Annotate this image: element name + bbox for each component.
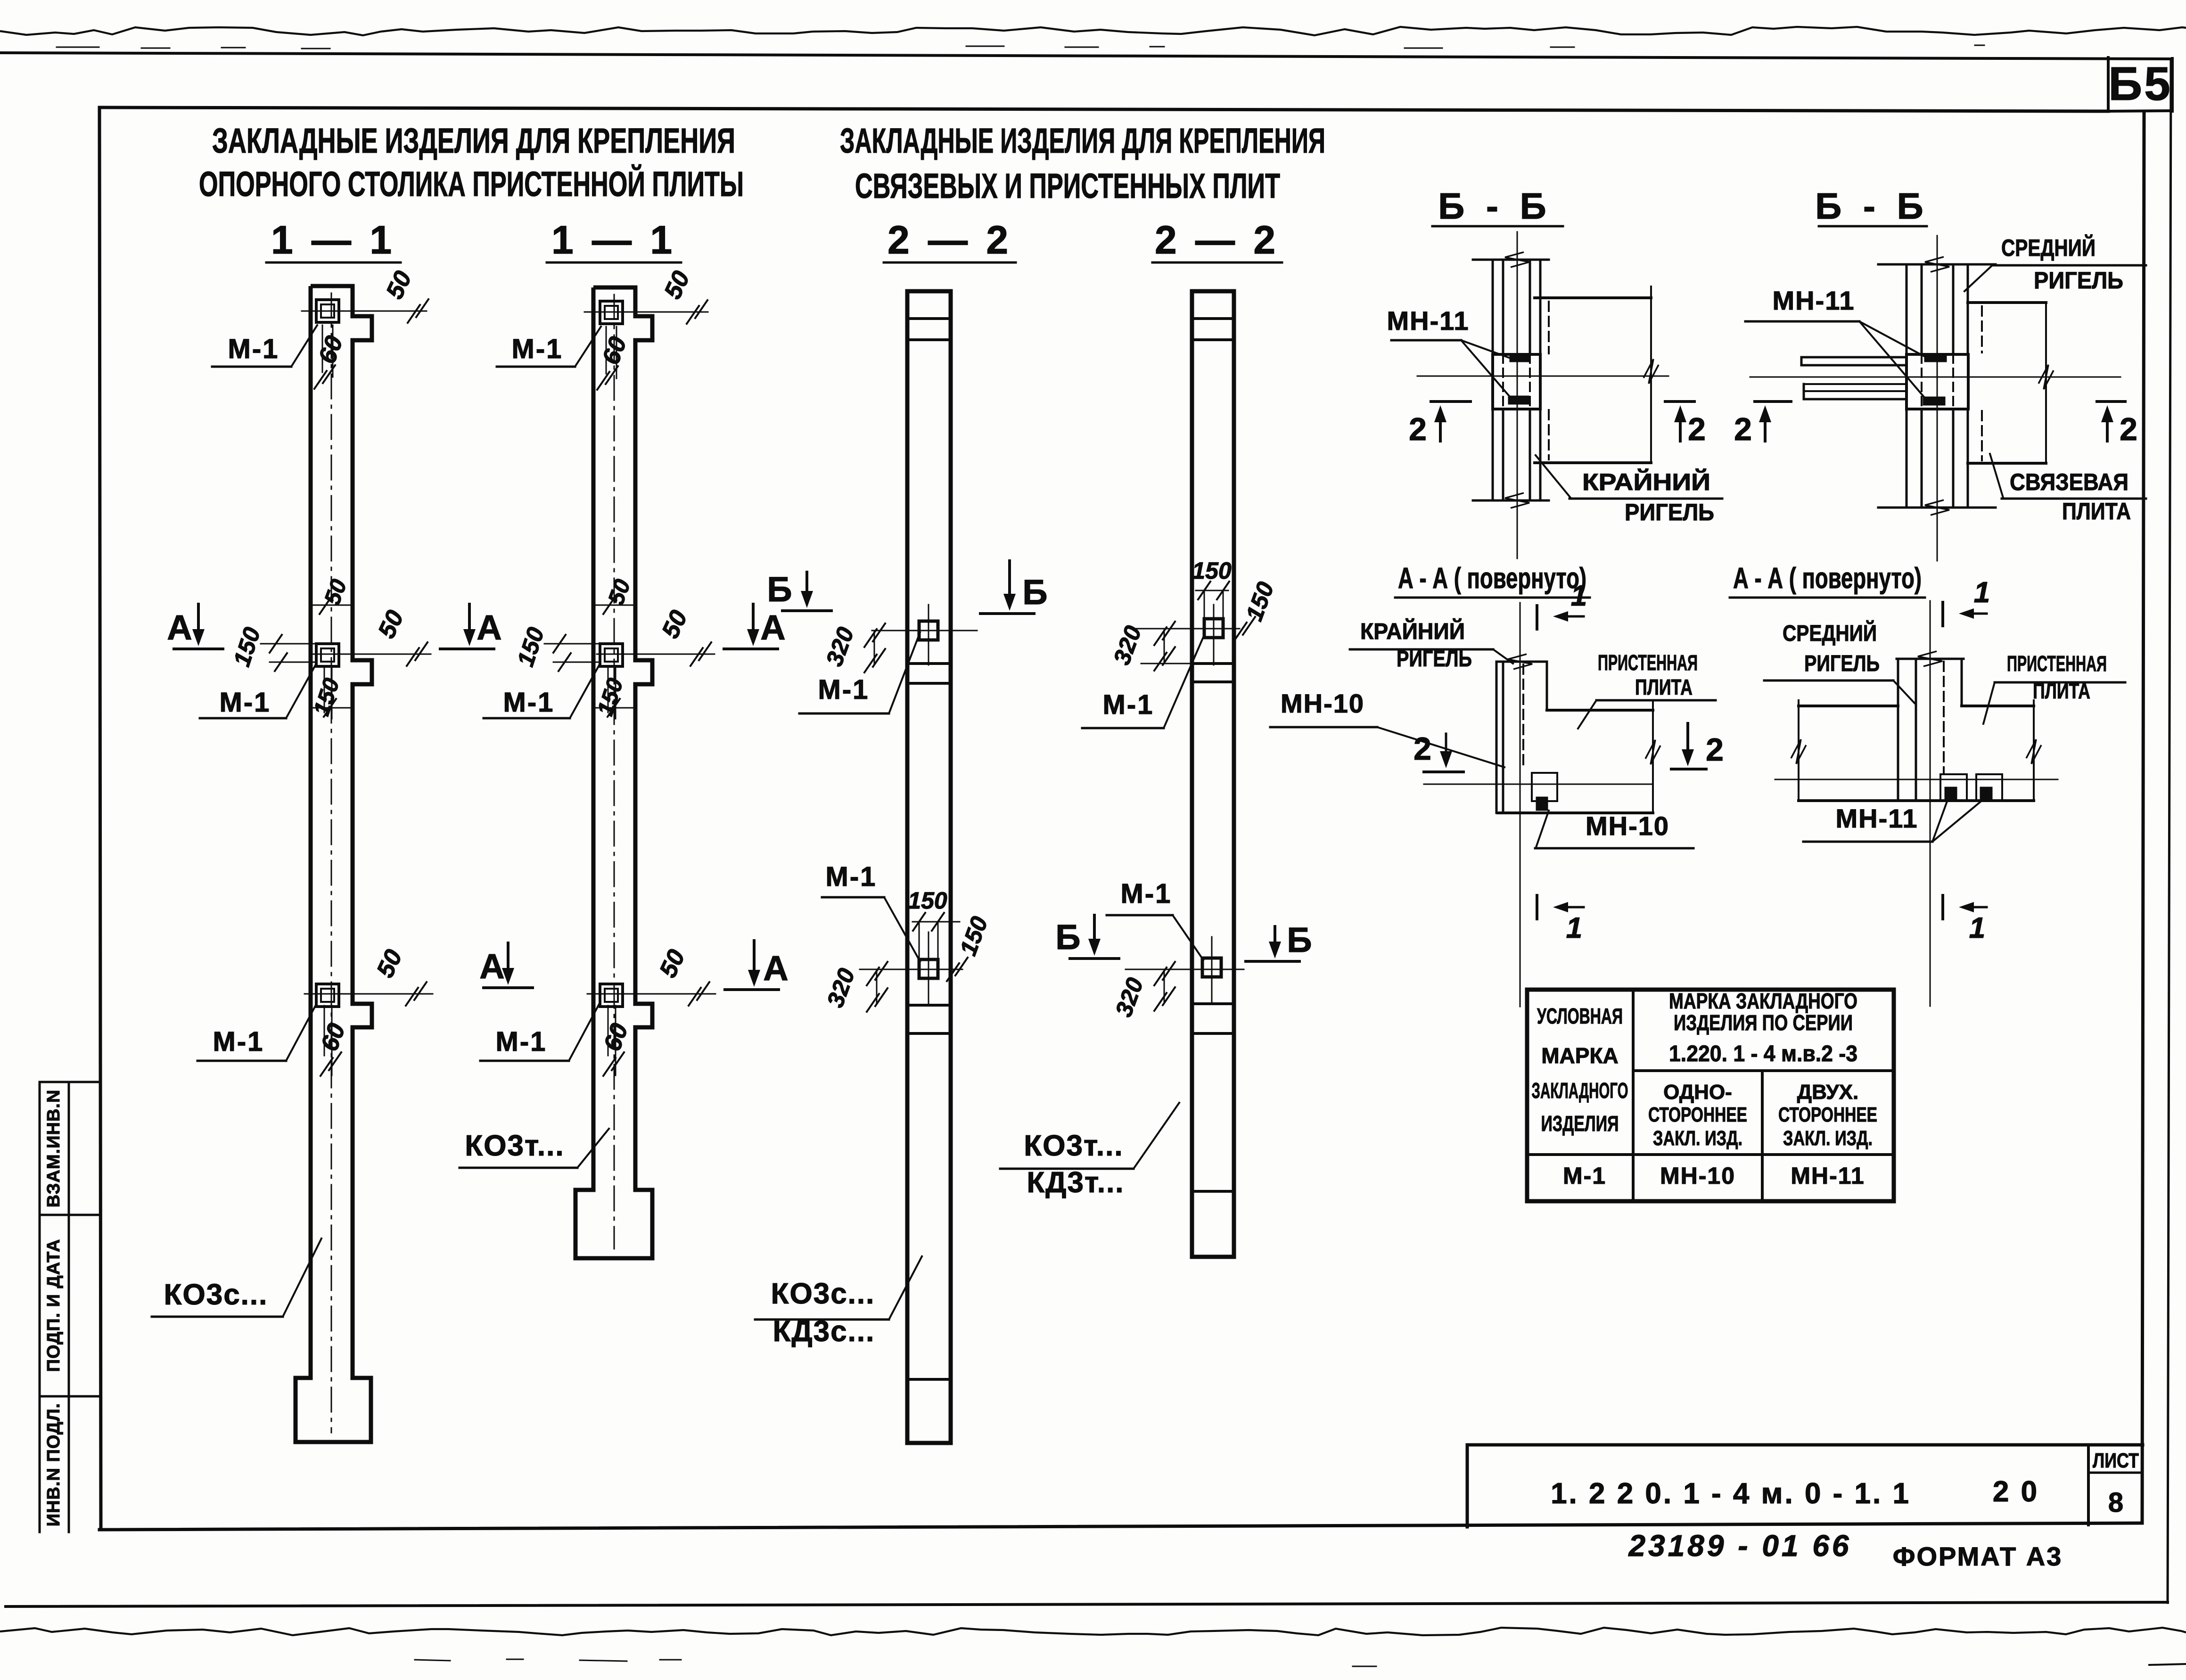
column 2 centerline (614, 295, 615, 1249)
title block list cell (2087, 1445, 2090, 1525)
svg-text:ИНВ.N ПОДЛ.: ИНВ.N ПОДЛ. (44, 1403, 64, 1526)
section mark A right of column 2 bottom (725, 988, 779, 991)
svg-text:2: 2 (1414, 731, 1431, 767)
svg-text:1: 1 (1571, 580, 1587, 612)
detail B-B left : MN-11 plate upper (1511, 354, 1529, 361)
column 4 lower dim 320 (1164, 969, 1165, 1003)
section mark B left of column 3 (782, 609, 831, 612)
svg-text:ОДНО-: ОДНО- (1663, 1081, 1732, 1104)
section mark B right of column 3 (980, 612, 1034, 615)
column 1 plate M-1 top (316, 300, 339, 322)
detail A-A right : section mark 1 bottom (1941, 895, 1944, 919)
svg-text:МАРКА ЗАКЛАДНОГО: МАРКА ЗАКЛАДНОГО (1669, 989, 1857, 1013)
svg-text:КО3с...: КО3с... (771, 1278, 875, 1310)
column 1 mid plate M-1 (316, 644, 339, 666)
detail B-B right : middle beam outline (1968, 301, 2046, 304)
svg-text:ЗАКЛАДНЫЕ ИЗДЕЛИЯ ДЛЯ КРЕПЛ: ЗАКЛАДНЫЕ ИЗДЕЛИЯ ДЛЯ КРЕПЛЕНИЯ (840, 121, 1325, 160)
detail B-B right : stiffness diaphragm (1801, 356, 1907, 359)
svg-text:РИГЕЛЬ: РИГЕЛЬ (1804, 651, 1880, 676)
column 2 mid dims 150 left (544, 643, 600, 645)
column 1 bottom dim 50 right (304, 993, 433, 995)
column 1 elevation outline (section 1-1) (296, 286, 372, 1442)
svg-text:СВЯЗЕВЫХ И ПРИСТЕННЫХ ПЛИТ: СВЯЗЕВЫХ И ПРИСТЕННЫХ ПЛИТ (855, 166, 1280, 205)
detail B-B right : MN-11 plate lower (1924, 398, 1944, 404)
svg-text:А: А (479, 947, 504, 986)
svg-text:2 — 2: 2 — 2 (1155, 218, 1279, 262)
column 1 mid dims 150 left (261, 643, 316, 645)
svg-text:МН-10: МН-10 (1281, 688, 1364, 718)
svg-text:1: 1 (1974, 576, 1990, 609)
svg-text:МН-11: МН-11 (1387, 306, 1470, 336)
table of embedded item marks : outer box (1527, 990, 1894, 1201)
table horizontal dividers (1633, 1069, 1894, 1072)
section mark A right of column 2 (724, 647, 778, 650)
detail A-A right : section mark 1 top (1941, 602, 1944, 626)
svg-text:МН-11: МН-11 (1791, 1163, 1865, 1189)
svg-text:МН-10: МН-10 (1586, 811, 1669, 841)
detail B-B right : column centerline (1937, 236, 1938, 561)
svg-text:СВЯЗЕВАЯ: СВЯЗЕВАЯ (2010, 469, 2128, 495)
svg-text:РИГЕЛЬ: РИГЕЛЬ (1397, 647, 1472, 672)
detail B-B left : joint block (1493, 354, 1540, 409)
column 3 upper plate M-1 (919, 621, 938, 640)
detail B-B right : MN-11 plate upper (1925, 354, 1946, 361)
column 2 bottom plate M-1 (600, 984, 623, 1007)
svg-text:КД3т...: КД3т... (1027, 1166, 1124, 1199)
detail B-B left : section mark 2 right (1665, 400, 1694, 403)
svg-text:М-1: М-1 (503, 687, 555, 718)
column 1 mid dim 150 below (312, 707, 351, 709)
svg-text:2 0: 2 0 (1993, 1475, 2039, 1508)
column 3 lower plate M-1 (919, 959, 938, 978)
detail B-B left : section mark 2 left (1431, 400, 1471, 403)
svg-text:ОПОРНОГО СТОЛИКА ПРИСТЕННОЙ: ОПОРНОГО СТОЛИКА ПРИСТЕННОЙ ПЛИТЫ (199, 164, 744, 204)
left margin stamp boxes (39, 1082, 41, 1532)
detail A-A right : wall plate right part (1962, 705, 2034, 707)
column 2 bottom dim 50 right (587, 993, 715, 995)
svg-text:Б: Б (1022, 573, 1047, 612)
svg-text:КРАЙНИЙ: КРАЙНИЙ (1360, 618, 1465, 644)
detail B-B left : lower column (1492, 409, 1494, 500)
svg-text:КО3т...: КО3т... (465, 1130, 564, 1162)
column 3 joint band lines (907, 317, 951, 320)
detail B-B left : column centerline (1517, 232, 1518, 558)
detail B-B left : edge beam outline (1535, 296, 1651, 299)
column 2 top dim 50 (584, 311, 708, 313)
svg-text:1: 1 (1566, 912, 1582, 944)
svg-text:М-1: М-1 (228, 334, 279, 364)
column 4 upper dim 320 (1164, 629, 1165, 663)
column 2 mid dim 50 right (597, 654, 715, 655)
column 4 elevation outline (section 2-2) (1192, 291, 1234, 1257)
column 1 mid dim 50 right (313, 654, 431, 655)
column 2 elevation outline (section 1-1) (575, 287, 652, 1258)
svg-text:2: 2 (1706, 732, 1724, 768)
svg-text:РИГЕЛЬ: РИГЕЛЬ (2034, 267, 2123, 294)
torn paper top edge (0, 27, 2186, 35)
column 3 elevation outline (section 2-2) (907, 291, 951, 1443)
detail A-A left : column strip (1496, 662, 1498, 813)
column 3 lower dim 320 (876, 969, 878, 1004)
column 1 mid dim 50 above (311, 605, 351, 606)
svg-text:Б - Б: Б - Б (1438, 185, 1552, 227)
svg-text:М-1: М-1 (826, 861, 877, 892)
svg-text:РИГЕЛЬ: РИГЕЛЬ (1625, 499, 1714, 525)
section mark A right of column 1 (440, 647, 494, 650)
svg-text:1: 1 (1969, 912, 1985, 944)
title block box (1466, 1445, 1469, 1527)
svg-text:2: 2 (1734, 411, 1752, 447)
svg-text:М-1: М-1 (512, 334, 563, 364)
svg-text:2: 2 (1688, 411, 1706, 447)
section mark A left of column 2 bottom (484, 986, 533, 989)
svg-text:А - А ( повернуто): А - А ( повернуто) (1398, 562, 1586, 595)
svg-text:150: 150 (908, 887, 947, 914)
svg-text:КРАЙНИЙ: КРАЙНИЙ (1582, 468, 1710, 495)
section mark B left of column 4 bottom (1070, 957, 1119, 960)
column 2 mid dim 150 below (596, 707, 635, 709)
svg-text:ЗАКЛАДНЫЕ ИЗДЕЛИЯ ДЛЯ КРЕПЛ: ЗАКЛАДНЫЕ ИЗДЕЛИЯ ДЛЯ КРЕПЛЕНИЯ (212, 121, 735, 160)
detail B-B left : MN-11 plate lower (1509, 397, 1528, 403)
detail B-B right : joint block (1907, 354, 1968, 409)
svg-text:ВЗАМ.ИНВ.N: ВЗАМ.ИНВ.N (44, 1090, 64, 1208)
torn paper bottom edge (0, 1628, 2186, 1635)
svg-text:ЗАКЛ. ИЗД.: ЗАКЛ. ИЗД. (1653, 1127, 1742, 1150)
svg-text:ПРИСТЕННАЯ: ПРИСТЕННАЯ (2007, 651, 2107, 676)
svg-text:ЗАКЛАДНОГО: ЗАКЛАДНОГО (1532, 1078, 1628, 1103)
detail B-B right : floor level line (1750, 377, 2120, 378)
sheet right edge line (2168, 59, 2171, 1603)
svg-text:ЗАКЛ. ИЗД.: ЗАКЛ. ИЗД. (1783, 1127, 1873, 1150)
column 2 plate M-1 top (600, 301, 623, 324)
svg-text:КД3с...: КД3с... (773, 1315, 875, 1348)
column 4 upper plate M-1 (1204, 619, 1223, 638)
column 1 top dim 50 (302, 311, 427, 312)
svg-text:М-1: М-1 (818, 674, 870, 705)
detail A-A right : column strip (1897, 659, 1899, 801)
svg-text:МН-10: МН-10 (1660, 1163, 1735, 1189)
column 2 mid plate M-1 (600, 644, 623, 666)
svg-text:СТОРОННЕЕ: СТОРОННЕЕ (1778, 1103, 1877, 1126)
svg-text:Б: Б (767, 570, 792, 609)
detail B-B right : section mark 2 left (1755, 400, 1791, 403)
table vertical dividers (1632, 990, 1635, 1201)
section mark B right of column 4 bottom (1246, 960, 1299, 963)
svg-text:М-1: М-1 (1121, 878, 1172, 909)
svg-text:ДВУХ.: ДВУХ. (1797, 1081, 1858, 1104)
svg-text:1. 2 2 0. 1 - 4 м. 0 - 1. 1: 1. 2 2 0. 1 - 4 м. 0 - 1. 1 (1551, 1477, 1911, 1510)
detail B-B left : upper column (1492, 260, 1494, 354)
detail A-A left : hidden plate box (1532, 773, 1557, 801)
svg-text:1 — 1: 1 — 1 (551, 218, 676, 262)
detail B-B right : section mark 2 right (2097, 400, 2125, 403)
svg-text:Б: Б (1287, 920, 1312, 959)
drawing frame border (99, 107, 2108, 111)
svg-text:СРЕДНИЙ: СРЕДНИЙ (1783, 620, 1877, 646)
svg-text:М-1: М-1 (1563, 1163, 1606, 1189)
detail A-A left : wall plate (1547, 709, 1653, 712)
svg-text:А: А (763, 949, 788, 988)
svg-text:М-1: М-1 (220, 687, 271, 718)
detail A-A left : section mark 1 bottom (1536, 895, 1538, 919)
sheet top edge line (0, 53, 2172, 59)
svg-text:МАРКА: МАРКА (1541, 1043, 1619, 1068)
corner label box B5 (2107, 57, 2110, 111)
column 2 mid dim 50 above (595, 605, 635, 606)
svg-text:А: А (477, 608, 501, 647)
svg-text:М-1: М-1 (496, 1026, 547, 1057)
svg-text:СТОРОННЕЕ: СТОРОННЕЕ (1648, 1103, 1747, 1126)
svg-text:1 — 1: 1 — 1 (271, 218, 395, 262)
detail A-A right : hidden plate boxes (1940, 774, 1967, 801)
svg-text:2 — 2: 2 — 2 (888, 218, 1012, 262)
svg-text:М-1: М-1 (1103, 689, 1154, 720)
svg-text:ПРИСТЕННАЯ: ПРИСТЕННАЯ (1598, 650, 1698, 675)
column 1 bottom plate M-1 (316, 984, 339, 1007)
svg-text:А: А (167, 608, 192, 647)
detail B-B right : lower column (1906, 409, 1908, 508)
svg-text:150: 150 (1192, 557, 1232, 584)
svg-text:ПЛИТА: ПЛИТА (2033, 679, 2090, 703)
svg-text:КО3т...: КО3т... (1024, 1130, 1123, 1162)
svg-text:Б5: Б5 (2108, 57, 2172, 110)
svg-text:8: 8 (2108, 1487, 2123, 1518)
column 3 upper dim 320 (874, 631, 875, 664)
sheet bottom edge line (6, 1602, 2168, 1606)
svg-text:А - А ( повернуто): А - А ( повернуто) (1733, 562, 1922, 595)
column 4 joint band lines (1192, 317, 1234, 320)
svg-text:ИЗДЕЛИЯ: ИЗДЕЛИЯ (1541, 1111, 1619, 1136)
svg-text:ПОДП. И ДАТА: ПОДП. И ДАТА (44, 1239, 64, 1372)
column 1 centerline (331, 293, 332, 1433)
svg-text:23189 - 01 66: 23189 - 01 66 (1628, 1529, 1852, 1563)
svg-text:ЛИСТ: ЛИСТ (2093, 1449, 2139, 1472)
detail B-B right : upper column (1906, 264, 1908, 354)
detail A-A left : column centerline (1520, 603, 1521, 1007)
column 4 lower plate M-1 (1202, 958, 1221, 977)
section mark A left of column 1 (174, 647, 223, 650)
svg-text:Б - Б: Б - Б (1815, 185, 1929, 227)
svg-text:А: А (760, 608, 785, 647)
svg-text:2: 2 (2120, 411, 2137, 447)
svg-text:ФОРМАТ А3: ФОРМАТ А3 (1893, 1541, 2063, 1571)
svg-text:ПЛИТА: ПЛИТА (1635, 675, 1693, 699)
detail B-B left : floor level line (1417, 376, 1668, 377)
svg-text:ПЛИТА: ПЛИТА (2062, 498, 2131, 524)
svg-text:2: 2 (1409, 411, 1427, 447)
svg-text:ИЗДЕЛИЯ ПО СЕРИИ: ИЗДЕЛИЯ ПО СЕРИИ (1674, 1010, 1853, 1035)
svg-text:СРЕДНИЙ: СРЕДНИЙ (2001, 234, 2096, 261)
detail A-A right : column centerline (1930, 601, 1931, 1006)
svg-text:МН-11: МН-11 (1773, 286, 1855, 315)
detail A-A left : section mark 1 top (1536, 606, 1538, 629)
svg-text:М-1: М-1 (213, 1026, 264, 1057)
svg-text:КО3с...: КО3с... (164, 1278, 268, 1311)
svg-text:МН-11: МН-11 (1836, 803, 1918, 833)
detail A-A right : wall plate left part (1799, 705, 1898, 707)
svg-text:Б: Б (1055, 918, 1080, 957)
svg-text:1.220. 1 - 4 м.в.2 -3: 1.220. 1 - 4 м.в.2 -3 (1669, 1041, 1857, 1066)
svg-text:УСЛОВНАЯ: УСЛОВНАЯ (1537, 1004, 1623, 1028)
